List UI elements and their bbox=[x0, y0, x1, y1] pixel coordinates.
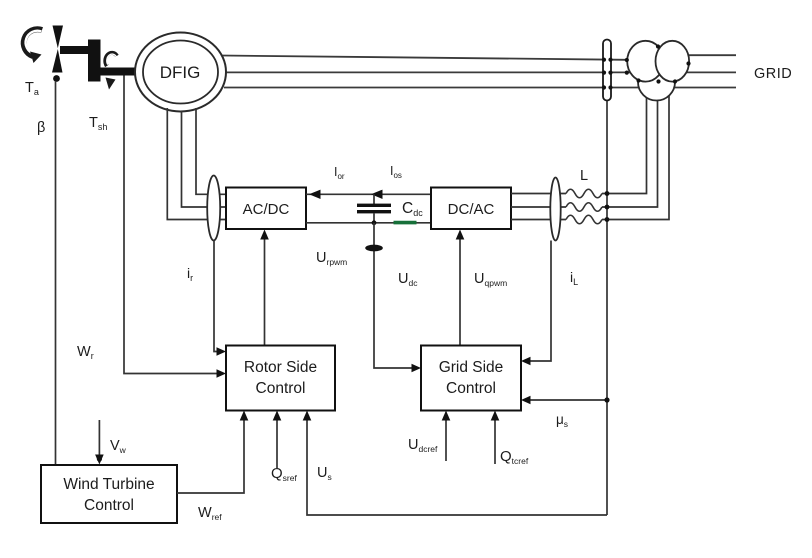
wire beta (blades to wind turbine control) bbox=[55, 81, 57, 465]
DC bus bottom line bbox=[306, 222, 431, 224]
capacitor C_dc bbox=[357, 194, 391, 223]
svg-text:DFIG: DFIG bbox=[160, 63, 201, 82]
measurement ellipse (rotor side) bbox=[207, 176, 220, 241]
high speed shaft bbox=[100, 68, 137, 76]
small rotation arrow on shaft bbox=[105, 53, 117, 90]
arrow I_or bbox=[309, 190, 321, 199]
wire V_w into wind turbine control bbox=[98, 420, 100, 456]
wire W_r vertical (shaft to rotor side control) bbox=[124, 76, 218, 374]
wire i_r from ellipse to rotor side control bbox=[214, 241, 218, 352]
wire mu_s from bus to GSC bbox=[530, 399, 607, 401]
svg-text:AC/DC: AC/DC bbox=[243, 201, 290, 218]
svg-text:L: L bbox=[580, 168, 588, 184]
grid side ac lines to filter bbox=[511, 193, 566, 195]
wires from inductor up to transformer bbox=[602, 92, 647, 194]
svg-text:DC/AC: DC/AC bbox=[448, 201, 495, 218]
green segment bbox=[394, 221, 417, 225]
hub shaft bbox=[60, 46, 92, 54]
wire U_dcref into GSC bbox=[445, 420, 447, 462]
svg-text:Control: Control bbox=[256, 380, 306, 397]
junction dots on bus wire at inductor lines bbox=[605, 191, 610, 196]
wire U_rpwm (rotor control to AC/DC) bbox=[264, 238, 266, 346]
wire U_s from grid bus to RSC bbox=[307, 420, 607, 516]
svg-text:Control: Control bbox=[84, 497, 134, 514]
AC/DC converter bbox=[226, 188, 306, 230]
svg-text:β: β bbox=[37, 120, 45, 136]
blob on U_dc wire bbox=[365, 245, 383, 252]
DFIG generator bbox=[135, 33, 226, 112]
wire U_dc down to grid side control bbox=[374, 223, 412, 368]
svg-text:Rotor Side: Rotor Side bbox=[244, 359, 317, 376]
node below blades bbox=[53, 75, 60, 82]
stator line 1 bbox=[222, 56, 627, 60]
stator line 2 bbox=[225, 71, 736, 73]
node on dc bottom line bbox=[372, 220, 377, 225]
Grid Side Control box bbox=[421, 346, 521, 411]
svg-text:Grid Side: Grid Side bbox=[439, 359, 504, 376]
wire U_qpwm (grid control to DC/AC) bbox=[459, 238, 461, 346]
svg-text:Control: Control bbox=[446, 380, 496, 397]
rotation arrow (aerodynamic torque) bbox=[24, 29, 42, 63]
inductor L coils bbox=[566, 189, 602, 198]
measurement ellipse (grid side) bbox=[550, 178, 560, 241]
DC bus top line bbox=[306, 193, 431, 195]
stator line 3 bbox=[224, 87, 736, 89]
bus bar capsule bbox=[603, 40, 611, 101]
wire Q_tcref into GSC bbox=[494, 420, 496, 465]
wire Q_sref into RSC bbox=[276, 420, 278, 469]
rotor lines from DFIG down to slip-ring ellipse bbox=[167, 108, 226, 220]
DC/AC converter bbox=[431, 188, 511, 230]
gearbox bbox=[88, 40, 101, 82]
wire i_L from ellipse to grid side control bbox=[530, 241, 551, 362]
arrow I_os bbox=[371, 190, 383, 199]
bus bar vertical wire bbox=[606, 100, 608, 515]
wire W_ref from WTC to RSC bbox=[177, 420, 244, 494]
Wind Turbine Control box bbox=[41, 465, 177, 523]
turbine blades bbox=[52, 26, 63, 73]
svg-text:GRID: GRID bbox=[754, 66, 792, 82]
Rotor Side Control box bbox=[226, 346, 335, 411]
svg-text:Wind Turbine: Wind Turbine bbox=[63, 476, 154, 493]
dots at bus bar crossings bbox=[602, 58, 606, 62]
transformer bbox=[625, 41, 691, 101]
